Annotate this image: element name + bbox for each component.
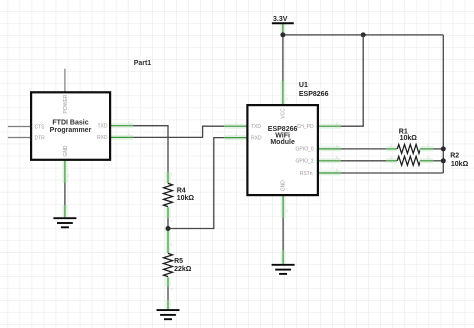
wire right 3.3V vertical (442, 35, 444, 173)
svg-text:Part1: Part1 (134, 60, 152, 67)
node R2 junction (441, 158, 446, 163)
svg-text:6: 6 (336, 168, 338, 172)
svg-text:1: 1 (171, 173, 173, 177)
wire FTDI POWER stub (64, 69, 66, 93)
svg-text:10kΩ: 10kΩ (400, 135, 418, 142)
wire RSTn to rail (341, 172, 443, 174)
node rail junction (361, 32, 366, 37)
resistor R1 (397, 144, 420, 153)
svg-text:2: 2 (427, 144, 429, 148)
svg-text:3.3V: 3.3V (273, 16, 288, 23)
wire GPIO_0 to R1 (341, 148, 386, 150)
wire FTDI DTR stub (8, 137, 31, 139)
svg-text:GPIO_0: GPIO_0 (296, 147, 314, 153)
power symbol 3.3V (272, 16, 294, 35)
svg-text:2: 2 (427, 156, 429, 160)
svg-text:VCC: VCC (281, 108, 287, 119)
svg-text:TXD: TXD (251, 124, 261, 130)
wire 3.3V to ESP VCC (282, 35, 284, 81)
wire R1 right leg (420, 146, 433, 151)
svg-text:7: 7 (68, 174, 70, 178)
ground symbol ESP (272, 265, 295, 274)
svg-text:Module: Module (270, 139, 295, 146)
svg-text:1: 1 (286, 97, 288, 101)
wire 3.3V rail (283, 34, 443, 36)
wire FTDI GND leg (62, 160, 67, 183)
node divider junction (166, 226, 171, 231)
svg-text:POWER: POWER (63, 94, 69, 113)
svg-text:TXD: TXD (98, 124, 108, 130)
pin numbers faint (68, 97, 430, 292)
wire FTDI GND to ground (64, 183, 66, 205)
svg-text:U1: U1 (299, 82, 308, 89)
svg-text:3: 3 (235, 133, 237, 137)
node R1 junction (441, 146, 446, 151)
wire R2 left leg (386, 158, 397, 163)
node VCC junction (280, 32, 285, 37)
wire ESP RSTn leg (318, 171, 341, 176)
ground symbol R5 (157, 310, 180, 319)
wire ESP RXD leg (224, 135, 247, 140)
wire junction to ESP RXD (168, 138, 224, 229)
ground symbol FTDI (53, 218, 76, 227)
wire junction to R5 leg (166, 229, 171, 254)
svg-text:2: 2 (286, 209, 288, 213)
svg-text:R2: R2 (450, 153, 459, 160)
svg-text:Programmer: Programmer (50, 127, 92, 134)
svg-text:CTS: CTS (35, 124, 46, 130)
svg-text:DTR: DTR (35, 135, 46, 141)
svg-text:1: 1 (171, 243, 173, 247)
wire R1 to rail (433, 148, 443, 150)
svg-text:5: 5 (336, 156, 338, 160)
wire R4 bottom leg (166, 207, 171, 218)
svg-text:10kΩ: 10kΩ (177, 195, 195, 202)
wire ground pin leg (62, 205, 67, 217)
wire ESP TXD leg (224, 124, 247, 129)
resistor R5 (164, 253, 173, 276)
svg-text:2: 2 (128, 133, 130, 137)
svg-text:2: 2 (336, 122, 338, 126)
svg-text:R5: R5 (174, 258, 183, 265)
wire R5 bottom leg (166, 277, 171, 287)
wire R2 to rail (433, 160, 443, 162)
resistor R4 (164, 183, 173, 206)
wire rail to CH_PD (341, 35, 363, 126)
wire R4 top leg (166, 172, 171, 183)
svg-text:R4: R4 (177, 187, 186, 194)
svg-text:22kΩ: 22kΩ (174, 266, 192, 273)
wire R1 left leg (386, 146, 397, 151)
svg-text:RXD: RXD (97, 135, 108, 141)
wire R4 to junction (167, 218, 169, 229)
wire R5 to ground (167, 287, 169, 301)
wire net RXD to ESP TXD (133, 126, 224, 137)
wire ESP GND leg (281, 195, 286, 217)
wire net TXD to R4 (133, 126, 168, 172)
svg-text:CH_PD: CH_PD (297, 124, 314, 130)
wire ESP CH_PD leg (318, 124, 341, 129)
svg-text:4: 4 (336, 144, 338, 148)
wire ESP VCC leg (280, 81, 285, 105)
wire FTDI RXD leg (110, 135, 133, 140)
svg-text:RXD: RXD (251, 135, 262, 141)
svg-text:1: 1 (128, 121, 130, 125)
svg-text:2: 2 (171, 219, 173, 223)
wire GPIO_2 to R2 (341, 160, 386, 162)
wire ESP GND to ground (282, 218, 284, 251)
wire FTDI CTS stub (8, 126, 31, 128)
wire FTDI TXD leg (110, 123, 133, 128)
svg-text:2: 2 (171, 288, 173, 292)
svg-text:ESP8266: ESP8266 (299, 91, 329, 98)
svg-text:1: 1 (390, 156, 392, 160)
wire R2 right leg (420, 158, 433, 163)
wire ESP GPIO_0 leg (318, 146, 341, 151)
part FTDI Basic Programmer (31, 92, 110, 160)
part U1 ESP8266 WiFi Module (247, 105, 318, 195)
svg-text:GPIO_2: GPIO_2 (296, 159, 314, 165)
svg-text:GND: GND (63, 145, 69, 157)
svg-text:1: 1 (235, 122, 237, 126)
svg-text:10kΩ: 10kΩ (451, 161, 469, 168)
wire ESP GPIO_2 leg (318, 158, 341, 163)
wire ground pin leg (281, 251, 286, 264)
wire ground pin leg (166, 301, 171, 310)
resistor R2 (397, 156, 420, 165)
svg-text:RSTn: RSTn (300, 171, 313, 177)
svg-text:1: 1 (390, 144, 392, 148)
svg-text:GND: GND (281, 180, 287, 192)
svg-text:FTDI Basic: FTDI Basic (52, 120, 88, 127)
